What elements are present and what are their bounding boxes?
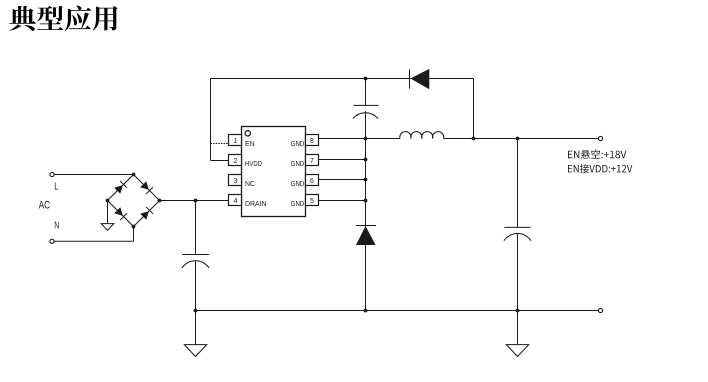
svg-text:5: 5 xyxy=(310,198,314,205)
wire N to bridge bottom xyxy=(54,240,133,242)
junction at bridge top node xyxy=(132,173,136,177)
wire pin 6 to GND column xyxy=(319,179,366,181)
wire C3 junction down to ground xyxy=(517,311,519,345)
svg-text:4: 4 xyxy=(234,198,238,205)
wire C1 junction down to ground xyxy=(195,311,197,345)
wire pin 5 to GND column xyxy=(319,200,366,202)
pin 8 box xyxy=(306,135,319,146)
wire top-right corner down to SW node xyxy=(473,79,475,139)
svg-text:2: 2 xyxy=(234,158,238,165)
svg-text:3: 3 xyxy=(234,178,238,185)
svg-text:HVDD: HVDD xyxy=(245,161,262,168)
bridge diode D_b (top node to right node) xyxy=(140,181,149,190)
junction SW corner node xyxy=(472,137,476,141)
bridge diode D_d (bottom node to right node) xyxy=(140,211,149,220)
junction pin8/C2/D2 column xyxy=(364,137,368,141)
pin 4 box xyxy=(229,195,242,206)
svg-text:N: N xyxy=(54,220,59,231)
junction GND column pin 6 xyxy=(364,178,368,182)
inductor L1 xyxy=(400,132,444,139)
junction GND column pin 7 xyxy=(364,158,368,162)
svg-text:GND: GND xyxy=(291,161,305,168)
diode D1 (top rail, pointing left) xyxy=(409,69,411,88)
wire inductor to output xyxy=(444,138,599,140)
svg-text:8: 8 xyxy=(310,138,314,145)
terminal L (open circle) xyxy=(50,172,54,176)
wire top rail (HVDD net) xyxy=(211,78,474,80)
wire bridge output to DRAIN pin 4 xyxy=(160,200,229,202)
capacitor C1 (input bulk) xyxy=(195,201,197,255)
svg-text:AC: AC xyxy=(39,200,51,212)
wire bridge left node down to ground xyxy=(107,201,109,224)
junction C3 to bottom rail xyxy=(516,309,520,313)
op IC U1 body (8-pin) xyxy=(242,127,306,217)
terminal VOUT- (open circle) xyxy=(598,308,602,312)
pin 2 box xyxy=(229,155,242,166)
wire HVDD pin 2 to left riser xyxy=(211,160,229,162)
value label EN to VDD:+12V xyxy=(568,164,632,173)
value label EN floating:+18V xyxy=(568,150,626,159)
svg-text:EN: EN xyxy=(245,141,255,148)
ground symbol below C1 xyxy=(184,345,207,357)
bridge rectifier diamond wires xyxy=(108,175,134,201)
pin 7 box xyxy=(306,155,319,166)
capacitor C3 (output) xyxy=(517,139,519,228)
ground symbol below C3 xyxy=(506,345,529,357)
wire pin 7 to GND column xyxy=(319,159,366,161)
junction top rail at C2 xyxy=(364,77,368,81)
svg-text:NC: NC xyxy=(245,181,255,188)
svg-text:7: 7 xyxy=(310,158,314,165)
svg-text:DRAIN: DRAIN xyxy=(245,201,267,208)
svg-text:GND: GND xyxy=(291,201,305,208)
svg-text:GND: GND xyxy=(291,141,305,148)
terminal N (open circle) xyxy=(50,239,54,243)
junction node VIN (top of C1) xyxy=(194,199,198,203)
pin 3 box xyxy=(229,175,242,186)
svg-text:GND: GND xyxy=(291,181,305,188)
pin 5 box xyxy=(306,195,319,206)
bridge diode D_a (left node to top node) xyxy=(114,185,123,194)
wire left riser up to top rail xyxy=(210,79,212,161)
wire L to bridge top xyxy=(54,174,133,176)
junction at bridge bottom node xyxy=(132,225,136,229)
wire GND column vertical xyxy=(365,139,367,311)
junction output at C3 top xyxy=(516,137,520,141)
pin 6 box xyxy=(306,175,319,186)
wire bottom rail (GND net) xyxy=(196,310,599,312)
junction D2 to bottom rail xyxy=(364,309,368,313)
junction GND column pin 5 xyxy=(364,199,368,203)
junction C1 to bottom rail xyxy=(194,309,198,313)
IC pin-1 indicator circle xyxy=(245,131,250,136)
svg-text:6: 6 xyxy=(310,178,314,185)
junction at bridge right node xyxy=(158,199,162,203)
bridge diode D_c (left node to bottom node) xyxy=(114,207,123,216)
terminal VOUT+ (open circle) xyxy=(598,136,602,140)
svg-text:1: 1 xyxy=(234,138,238,145)
capacitor C2 (HVDD bypass) xyxy=(365,79,367,106)
ground symbol at bridge negative xyxy=(101,224,114,231)
svg-text:L: L xyxy=(54,182,59,193)
dashed wire EN option (pin 1) xyxy=(211,143,229,145)
title text 典型应用 xyxy=(9,6,117,31)
pin 1 box xyxy=(229,135,242,146)
junction at bridge left node xyxy=(106,199,110,203)
diode D2 (freewheel, pointing up) xyxy=(356,225,376,227)
wire pin 8 to SW column xyxy=(319,138,401,140)
